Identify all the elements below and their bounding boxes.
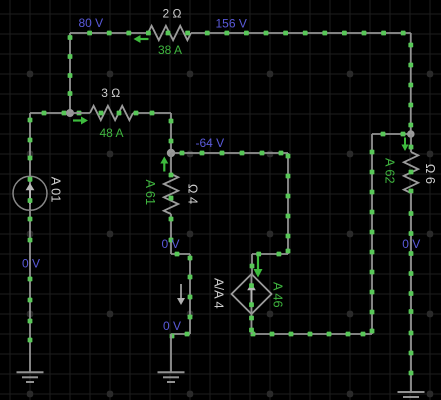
svg-text:-64 V: -64 V [196,136,225,150]
wire: ammeter segment (190,254)-(190,334) [188,254,193,334]
svg-text:A/A 4: A/A 4 [212,278,227,309]
wire: (252,254)-(252,274) into dependent source [250,254,255,274]
wire: left rail (30,113)-(30,177) into current source [28,113,33,177]
junction node at (171,153) [167,149,175,157]
resistor R3 4 ohm vertical (171,174)-(171,214) [164,173,178,214]
resistor R4 6 ohm vertical (411,152)-(411,193) [404,145,418,194]
junction node at (410,134) [407,130,415,138]
wire: lead (411,134)-(411,152) [410,134,412,152]
wire: (171,214)-(171,254) [169,214,174,254]
wire: (411,193)-(411,392) to ground [409,193,414,392]
wire: node B stub (30,113)-(70,113) [30,111,81,116]
svg-text:A 01: A 01 [49,177,64,203]
wire: (171,334)-(171,372) to ground [170,334,172,373]
wire: (133,113)-(171,113) [133,111,171,116]
wire: (171,153)-(288,153) [171,151,288,156]
wire: (171,113)-(171,153) [169,113,174,153]
current arrow into dependent source (down) at (258,277.5) [254,256,263,278]
wire: right rail (410,33)-(410,134) [408,33,413,134]
wire: jog (171,254)-(190,254) [171,252,190,257]
svg-text:A 62: A 62 [382,158,397,184]
wire: current source bottom (30,209)-(30,371) to ground [28,209,33,372]
svg-text:0 V: 0 V [22,257,40,271]
ground GND1 at (30,372) [17,372,44,382]
wire: top left segment (70,33)-(148,33) [70,31,148,36]
current source I1 10 A circle at (30,193) [13,176,47,210]
svg-text:38 A: 38 A [158,43,182,57]
svg-text:156 V: 156 V [216,17,247,31]
svg-text:A 61: A 61 [143,180,158,206]
wire: jog (171,334)-(190,334) [170,332,190,339]
current arrow for R4 (down) at (405,151) [401,138,408,152]
svg-text:48 A: 48 A [100,126,124,140]
resistor R2 3 ohm (90,113)-(133,113) [90,106,133,120]
svg-text:2 Ω: 2 Ω [163,7,182,21]
junction node at (70,113) [66,109,74,117]
svg-text:A 46: A 46 [270,282,285,308]
wire: lead (171,153)-(171,174) [170,153,172,174]
current arrow for R2 (right) at (88,120.5) [73,117,88,125]
wire: (252,254)-(288,254) [252,252,288,257]
wire: top segment (191,33)-(410,33) [191,31,411,36]
resistor R1 2 ohm (148,33)-(191,33) [146,26,191,40]
svg-text:Ω 6: Ω 6 [423,164,438,184]
svg-text:80 V: 80 V [79,16,104,30]
wire: lead (70,113)-(90,113) [70,112,90,114]
wire: (372,134)-(410,134) [372,132,411,137]
ground GND3 at (411,392) [398,392,425,400]
svg-text:0 V: 0 V [162,237,180,251]
ground GND2 at (171,372) [158,372,185,382]
dependent current source B1 diamond at (251.5,294) [232,274,272,314]
svg-text:Ω 4: Ω 4 [186,184,201,204]
wire: (288,153)-(288,254) [286,153,291,254]
svg-text:0 V: 0 V [402,237,420,251]
wire: (70,33)-(70,113) vertical [68,33,73,113]
current arrow for R1 (left) at (133.5,39) [134,35,149,43]
svg-text:3 Ω: 3 Ω [101,86,120,100]
current arrow for R3 (up) at (164.3,156.5) [160,157,168,172]
wire: bottom segment (251.5,334)-(372,334) [251,332,372,337]
svg-text:0 V: 0 V [163,319,181,333]
ammeter current arrow (gray, down) beside (181,284) [177,284,185,305]
wire: (372,134)-(372,334) vertical [370,134,375,334]
wire: (251.5,314)-(251.5,334) below dependent source [249,314,254,334]
